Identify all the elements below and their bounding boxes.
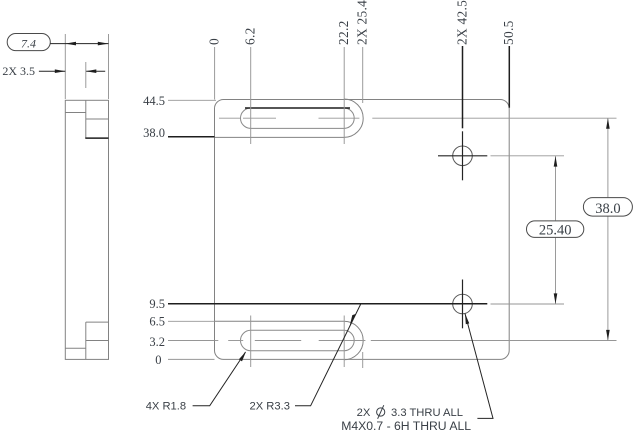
svg-text:2X 42.5: 2X 42.5	[454, 0, 469, 45]
svg-text:25.40: 25.40	[539, 223, 572, 239]
svg-text:7.4: 7.4	[21, 37, 36, 51]
svg-text:3.2: 3.2	[149, 335, 165, 349]
svg-text:6.2: 6.2	[243, 27, 258, 45]
svg-text:6.5: 6.5	[149, 314, 165, 328]
svg-text:M4X0.7 - 6H THRU ALL: M4X0.7 - 6H THRU ALL	[341, 419, 471, 433]
svg-text:38.0: 38.0	[143, 126, 165, 140]
svg-text:2X R3.3: 2X R3.3	[250, 401, 290, 413]
svg-text:50.5: 50.5	[501, 20, 516, 45]
svg-text:0: 0	[207, 38, 222, 45]
svg-text:38.0: 38.0	[595, 201, 620, 217]
svg-text:9.5: 9.5	[149, 297, 165, 311]
svg-text:2X 25.4: 2X 25.4	[355, 0, 370, 45]
svg-text:22.2: 22.2	[336, 20, 351, 45]
svg-text:44.5: 44.5	[143, 94, 165, 108]
svg-text:4X R1.8: 4X R1.8	[146, 401, 186, 413]
svg-text:3.3 THRU ALL: 3.3 THRU ALL	[391, 407, 463, 419]
svg-text:2X 3.5: 2X 3.5	[2, 64, 35, 78]
svg-text:0: 0	[155, 353, 161, 367]
svg-text:2X: 2X	[357, 407, 371, 419]
